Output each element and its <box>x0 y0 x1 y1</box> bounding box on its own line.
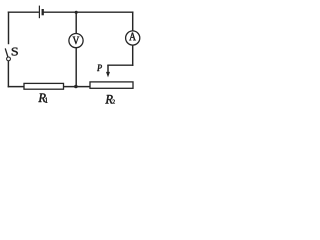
label R2 subscript 2 <box>113 100 115 104</box>
junction dot top node <box>75 11 78 14</box>
wire below switch down to bottom-left corner <box>7 61 9 87</box>
switch S contact circle <box>7 57 11 61</box>
label R1 letter R <box>38 93 45 102</box>
label S <box>12 48 18 56</box>
wire slider horizontal line <box>108 64 133 66</box>
voltmeter V circle <box>69 34 83 48</box>
slider arrow shaft <box>107 65 109 73</box>
label R2 letter R <box>105 95 112 104</box>
switch S blade <box>5 49 8 57</box>
label P <box>97 65 102 71</box>
rheostat R2 box <box>90 82 133 88</box>
wire ammeter branch upper right side <box>132 12 134 31</box>
wire left side from top corner down to switch <box>8 12 10 43</box>
junction dot bottom node <box>74 85 78 89</box>
wire bottom-left corner to R1 <box>8 86 24 88</box>
wire R1 to R2 (through bottom node) <box>64 86 91 88</box>
wire voltmeter branch upper <box>75 12 77 33</box>
resistor R1 box <box>24 83 64 89</box>
label A <box>129 33 136 41</box>
slider arrowhead <box>106 72 110 78</box>
label R1 subscript 1 <box>45 97 47 102</box>
ammeter A circle <box>126 31 140 45</box>
wire ammeter bottom to slider corner <box>132 45 134 65</box>
wire voltmeter branch lower <box>75 48 77 87</box>
wire top-left to battery <box>9 11 39 13</box>
label V <box>73 37 80 45</box>
battery cell <box>39 6 42 19</box>
wire battery to top-right corner <box>44 11 133 13</box>
